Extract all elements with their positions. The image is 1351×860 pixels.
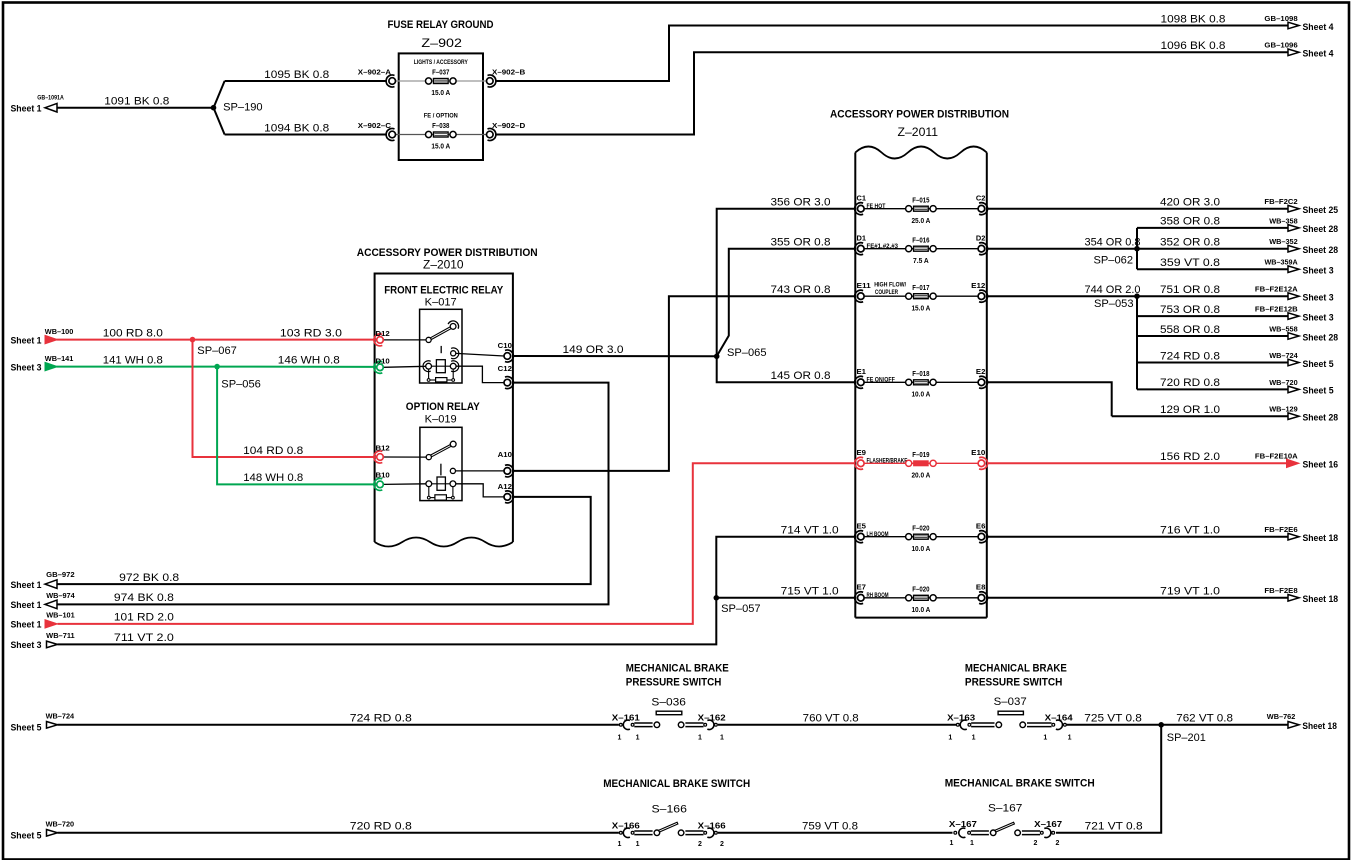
svg-text:LIGHTS / ACCESSORY: LIGHTS / ACCESSORY xyxy=(414,59,468,66)
pressure switch S-036 xyxy=(612,663,729,742)
relay K-019 xyxy=(384,401,505,501)
svg-text:K–019: K–019 xyxy=(425,414,457,426)
svg-text:E12: E12 xyxy=(971,281,985,290)
svg-text:MECHANICAL BRAKE SWITCH: MECHANICAL BRAKE SWITCH xyxy=(945,778,1095,790)
svg-text:GB–1096: GB–1096 xyxy=(1264,41,1297,50)
svg-text:F–018: F–018 xyxy=(912,371,929,378)
connector X-902-D xyxy=(487,121,526,141)
svg-text:E11: E11 xyxy=(857,281,871,290)
pin C12 xyxy=(498,364,514,389)
svg-text:A10: A10 xyxy=(498,450,512,459)
wire 720 RD 0.8 to sheet 5 xyxy=(1137,377,1334,396)
wire 714 VT 1.0 xyxy=(716,525,855,598)
svg-text:716 VT 1.0: 716 VT 1.0 xyxy=(1160,525,1220,537)
svg-text:Sheet 1: Sheet 1 xyxy=(11,580,42,590)
wire 716 VT 1.0 to sheet 18 xyxy=(987,525,1338,544)
svg-text:10.0 A: 10.0 A xyxy=(911,546,930,553)
pin C1 xyxy=(855,194,866,215)
svg-text:F–015: F–015 xyxy=(912,197,929,204)
svg-text:1098 BK 0.8: 1098 BK 0.8 xyxy=(1161,13,1226,25)
svg-text:149 OR 3.0: 149 OR 3.0 xyxy=(563,344,624,356)
svg-text:X–163: X–163 xyxy=(947,714,976,723)
wire 724 RD 0.8 to sheet 5 xyxy=(1137,350,1334,369)
svg-text:D10: D10 xyxy=(376,356,390,365)
pin E1 xyxy=(855,367,866,388)
svg-text:E10: E10 xyxy=(971,448,985,457)
svg-text:F–038: F–038 xyxy=(432,123,449,130)
svg-text:760 VT 0.8: 760 VT 0.8 xyxy=(803,713,859,725)
wire 558 OR 0.8 to sheet 28 xyxy=(1137,324,1338,343)
svg-text:15.0 A: 15.0 A xyxy=(431,144,450,151)
svg-text:744 OR 2.0: 744 OR 2.0 xyxy=(1085,284,1141,296)
svg-text:100 RD 8.0: 100 RD 8.0 xyxy=(103,327,163,339)
svg-text:COUPLER: COUPLER xyxy=(875,289,898,296)
svg-text:SP–190: SP–190 xyxy=(223,102,263,114)
svg-text:E2: E2 xyxy=(976,367,986,376)
svg-text:E8: E8 xyxy=(976,583,986,592)
svg-text:WB–720: WB–720 xyxy=(46,820,75,829)
svg-text:FB–F2C2: FB–F2C2 xyxy=(1264,197,1297,206)
svg-text:SP–065: SP–065 xyxy=(727,347,767,359)
fuse F-020 row E7-E8 xyxy=(861,587,982,615)
svg-text:F–016: F–016 xyxy=(912,237,929,244)
svg-text:SP–201: SP–201 xyxy=(1167,732,1206,744)
fuse F-020 row E5-E6 xyxy=(861,525,982,553)
svg-text:753 OR 0.8: 753 OR 0.8 xyxy=(1160,304,1220,316)
wire 129 OR 1.0 to sheet 28 xyxy=(987,382,1338,422)
wire 715 VT 1.0 xyxy=(716,586,855,598)
svg-text:SP–057: SP–057 xyxy=(721,603,761,615)
svg-text:RH BOOM: RH BOOM xyxy=(867,592,889,599)
svg-text:WB–358: WB–358 xyxy=(1269,216,1298,225)
pin D10 xyxy=(374,356,390,373)
svg-text:15.0 A: 15.0 A xyxy=(911,305,930,312)
svg-text:X–167: X–167 xyxy=(1034,820,1063,829)
svg-text:Sheet 3: Sheet 3 xyxy=(11,362,42,372)
svg-text:X–902–D: X–902–D xyxy=(492,121,526,130)
svg-text:WB–711: WB–711 xyxy=(46,631,74,640)
wire 719 VT 1.0 to sheet 18 xyxy=(987,586,1338,605)
svg-text:Sheet 18: Sheet 18 xyxy=(1303,594,1339,604)
wire 720 RD 0.8 from sheet 5 xyxy=(11,820,619,841)
svg-text:X–161: X–161 xyxy=(612,714,641,723)
svg-text:Sheet 28: Sheet 28 xyxy=(1303,224,1339,234)
brake switch S-166 xyxy=(603,778,750,848)
svg-text:FB–F2E12A: FB–F2E12A xyxy=(1255,285,1298,294)
svg-text:Sheet 1: Sheet 1 xyxy=(11,600,42,610)
svg-text:WB–141: WB–141 xyxy=(45,354,74,363)
wire 359 VT 0.8 to sheet 3 xyxy=(1137,257,1334,276)
power distribution box Z-2010 xyxy=(357,247,538,547)
svg-text:E9: E9 xyxy=(857,448,867,457)
svg-text:Sheet 18: Sheet 18 xyxy=(1303,533,1339,543)
svg-text:WB–100: WB–100 xyxy=(45,327,74,336)
svg-text:1: 1 xyxy=(636,734,640,741)
svg-text:FB–F2E12B: FB–F2E12B xyxy=(1255,305,1298,314)
wire 104 RD 0.8 xyxy=(193,340,377,457)
wire 725 VT 0.8 xyxy=(1067,713,1162,725)
svg-text:Sheet 5: Sheet 5 xyxy=(1303,386,1334,396)
svg-text:724 RD 0.8: 724 RD 0.8 xyxy=(1160,350,1220,362)
svg-text:FE HOT: FE HOT xyxy=(867,203,887,210)
svg-text:1: 1 xyxy=(970,840,974,847)
junction SP-062 xyxy=(1094,228,1140,269)
svg-text:352 OR 0.8: 352 OR 0.8 xyxy=(1160,237,1220,249)
svg-text:WB–129: WB–129 xyxy=(1269,405,1298,414)
svg-text:724 RD 0.8: 724 RD 0.8 xyxy=(350,713,412,725)
svg-text:1: 1 xyxy=(720,734,724,741)
svg-text:F–020: F–020 xyxy=(912,525,929,532)
svg-text:Z–2011: Z–2011 xyxy=(898,126,939,139)
pin E7 xyxy=(855,583,866,604)
pin A12 xyxy=(498,482,514,503)
wire 146 WH 0.8 xyxy=(217,354,377,367)
svg-text:X–164: X–164 xyxy=(1045,714,1074,723)
pin E6 xyxy=(976,522,988,543)
svg-text:354 OR 0.8: 354 OR 0.8 xyxy=(1085,237,1141,249)
pin E5 xyxy=(855,522,866,543)
svg-text:X–902–A: X–902–A xyxy=(358,67,392,76)
svg-text:20.0 A: 20.0 A xyxy=(911,473,930,480)
pin E11 xyxy=(855,281,871,302)
svg-text:Z–2010: Z–2010 xyxy=(423,258,464,271)
fuse F-037 xyxy=(414,59,468,97)
wire 355 OR 0.8 xyxy=(717,237,855,357)
connector X-902-B xyxy=(487,67,526,87)
junction SP-056 xyxy=(214,364,260,391)
wire 721 VT 0.8 xyxy=(1056,725,1161,833)
svg-text:1091 BK 0.8: 1091 BK 0.8 xyxy=(104,96,169,108)
svg-text:25.0 A: 25.0 A xyxy=(911,218,930,225)
svg-text:ACCESSORY POWER DISTRIBUTION: ACCESSORY POWER DISTRIBUTION xyxy=(830,108,1009,120)
pin E9 xyxy=(855,448,866,469)
svg-text:743 OR 0.8: 743 OR 0.8 xyxy=(771,284,831,296)
fuse F-015 row C1-C2 xyxy=(861,197,982,225)
pin A10 xyxy=(498,450,514,477)
svg-text:129 OR 1.0: 129 OR 1.0 xyxy=(1160,404,1220,416)
pin E12 xyxy=(971,281,987,302)
svg-text:10.0 A: 10.0 A xyxy=(911,607,930,614)
svg-text:972 BK 0.8: 972 BK 0.8 xyxy=(119,572,179,584)
pin B12 xyxy=(374,444,390,463)
pressure switch S-037 xyxy=(947,663,1073,742)
svg-text:Sheet 18: Sheet 18 xyxy=(1302,721,1337,731)
svg-text:F–017: F–017 xyxy=(912,285,929,292)
svg-text:103 RD 3.0: 103 RD 3.0 xyxy=(280,327,342,339)
svg-text:1: 1 xyxy=(1068,734,1072,741)
svg-text:146 WH 0.8: 146 WH 0.8 xyxy=(278,354,340,366)
svg-text:FRONT ELECTRIC RELAY: FRONT ELECTRIC RELAY xyxy=(384,284,503,296)
wire 145 OR 0.8 xyxy=(717,356,855,382)
fuse F-017 row E11-E12 xyxy=(861,282,982,313)
svg-text:FE#1,#2,#3: FE#1,#2,#3 xyxy=(867,243,899,250)
svg-text:2: 2 xyxy=(1034,840,1038,847)
svg-text:WB–101: WB–101 xyxy=(46,610,74,619)
svg-text:148 WH 0.8: 148 WH 0.8 xyxy=(243,472,303,484)
svg-text:101 RD 2.0: 101 RD 2.0 xyxy=(114,612,174,624)
junction SP-067 xyxy=(190,337,237,357)
svg-text:Sheet 28: Sheet 28 xyxy=(1303,245,1339,255)
svg-text:1: 1 xyxy=(948,734,952,741)
svg-text:FB–F2E6: FB–F2E6 xyxy=(1264,525,1297,534)
svg-text:558 OR 0.8: 558 OR 0.8 xyxy=(1160,324,1220,336)
pin E2 xyxy=(976,367,988,388)
svg-text:Sheet 3: Sheet 3 xyxy=(1303,312,1334,322)
svg-text:FLASHER/BRAKE: FLASHER/BRAKE xyxy=(867,457,908,464)
svg-text:104 RD 0.8: 104 RD 0.8 xyxy=(243,445,303,457)
pin E10 xyxy=(971,448,987,469)
svg-text:X–902–C: X–902–C xyxy=(358,121,392,130)
svg-text:SP–056: SP–056 xyxy=(221,379,260,391)
svg-text:Sheet 25: Sheet 25 xyxy=(1303,205,1339,215)
svg-text:E6: E6 xyxy=(976,522,986,531)
wire A12 to 972 xyxy=(58,497,591,584)
wire 1094 BK 0.8 xyxy=(225,122,387,134)
wire 352 OR 0.8 to sheet 28 xyxy=(1137,237,1338,256)
svg-text:MECHANICAL BRAKE: MECHANICAL BRAKE xyxy=(965,663,1067,675)
svg-text:K–017: K–017 xyxy=(425,297,457,309)
svg-text:S–037: S–037 xyxy=(994,696,1027,708)
svg-text:S–167: S–167 xyxy=(988,802,1022,814)
svg-text:356 OR 3.0: 356 OR 3.0 xyxy=(771,197,831,209)
svg-text:1094 BK 0.8: 1094 BK 0.8 xyxy=(264,122,329,134)
svg-text:1: 1 xyxy=(972,734,976,741)
svg-text:X–902–B: X–902–B xyxy=(492,67,525,76)
svg-text:WB–352: WB–352 xyxy=(1269,237,1298,246)
svg-text:FUSE RELAY GROUND: FUSE RELAY GROUND xyxy=(388,19,494,31)
svg-text:1: 1 xyxy=(618,841,622,848)
junction SP-053 xyxy=(1094,293,1140,389)
svg-text:LH BOOM: LH BOOM xyxy=(867,531,889,538)
svg-text:B12: B12 xyxy=(376,444,390,453)
svg-text:Sheet 5: Sheet 5 xyxy=(11,723,42,733)
svg-text:WB–720: WB–720 xyxy=(1269,378,1298,387)
svg-text:FE ON/OFF: FE ON/OFF xyxy=(867,376,895,383)
pin C10 xyxy=(498,341,514,362)
svg-text:Sheet 1: Sheet 1 xyxy=(11,103,42,113)
svg-text:B10: B10 xyxy=(376,470,390,479)
wire 148 WH 0.8 xyxy=(217,367,377,485)
svg-text:C1: C1 xyxy=(857,194,867,203)
svg-text:PRESSURE SWITCH: PRESSURE SWITCH xyxy=(965,677,1063,689)
svg-text:D1: D1 xyxy=(857,234,867,243)
svg-text:S–036: S–036 xyxy=(651,696,686,708)
power distribution box Z-2011 xyxy=(830,108,1009,617)
svg-text:1095 BK 0.8: 1095 BK 0.8 xyxy=(264,69,329,81)
wire 156 RD 2.0 to sheet 16 xyxy=(987,451,1338,470)
svg-text:GB–1091A: GB–1091A xyxy=(37,95,64,102)
svg-text:15.0 A: 15.0 A xyxy=(431,90,450,97)
svg-text:751 OR 0.8: 751 OR 0.8 xyxy=(1160,284,1220,296)
svg-text:420 OR 3.0: 420 OR 3.0 xyxy=(1160,197,1220,209)
wire 724 RD 0.8 from sheet 5 xyxy=(11,712,619,733)
svg-text:WB–974: WB–974 xyxy=(46,591,75,600)
svg-text:10.0 A: 10.0 A xyxy=(911,392,930,399)
svg-text:1: 1 xyxy=(950,840,954,847)
wire 100 RD 8.0 from sheet 1 xyxy=(11,327,193,345)
svg-text:2: 2 xyxy=(720,841,724,848)
fuse F-038 xyxy=(424,113,458,151)
svg-text:Sheet 28: Sheet 28 xyxy=(1303,413,1339,423)
svg-text:7.5 A: 7.5 A xyxy=(913,258,929,265)
svg-text:1: 1 xyxy=(1043,734,1047,741)
wire 149 OR 3.0 xyxy=(513,344,717,356)
svg-text:F–020: F–020 xyxy=(912,587,929,594)
svg-text:1: 1 xyxy=(698,734,702,741)
svg-text:X–167: X–167 xyxy=(949,820,978,829)
svg-text:141 WH 0.8: 141 WH 0.8 xyxy=(103,354,163,366)
svg-text:359 VT 0.8: 359 VT 0.8 xyxy=(1160,257,1220,269)
svg-text:FB–F2E8: FB–F2E8 xyxy=(1264,586,1297,595)
junction SP-201 xyxy=(1158,722,1205,744)
svg-text:X–162: X–162 xyxy=(698,714,727,723)
wire 101 RD 2.0 from sheet 1 xyxy=(11,463,856,629)
wire 759 VT 0.8 xyxy=(718,821,953,833)
wire 762 VT 0.8 to sheet 18 xyxy=(1161,712,1337,731)
brake switch S-167 xyxy=(945,778,1095,848)
wire 1095 BK 0.8 xyxy=(225,69,387,81)
svg-text:2: 2 xyxy=(1056,840,1060,847)
svg-text:Z–902: Z–902 xyxy=(421,37,462,50)
svg-text:D12: D12 xyxy=(376,329,390,338)
svg-text:WB–558: WB–558 xyxy=(1269,324,1298,333)
fuse F-019 row E9-E10 xyxy=(861,452,982,480)
svg-text:720 RD 0.8: 720 RD 0.8 xyxy=(1160,377,1220,389)
junction SP-065 xyxy=(714,347,767,359)
svg-text:715 VT 1.0: 715 VT 1.0 xyxy=(781,586,839,598)
svg-text:358 OR 0.8: 358 OR 0.8 xyxy=(1160,216,1220,228)
wire 1096 BK 0.8 to sheet 4 xyxy=(497,40,1334,134)
wire 972 BK 0.8 to sheet 1 xyxy=(11,570,180,590)
svg-text:S–166: S–166 xyxy=(652,804,687,816)
svg-text:1: 1 xyxy=(618,734,622,741)
connector X-902-A xyxy=(358,67,396,87)
wire C12 to 974 xyxy=(58,383,609,605)
svg-text:714 VT 1.0: 714 VT 1.0 xyxy=(781,525,839,537)
svg-text:SP–062: SP–062 xyxy=(1094,255,1134,267)
svg-text:355 OR 0.8: 355 OR 0.8 xyxy=(771,237,831,249)
junction SP-190 xyxy=(211,81,263,135)
svg-text:974 BK 0.8: 974 BK 0.8 xyxy=(114,592,174,604)
fuse F-018 row E1-E2 xyxy=(861,371,982,399)
svg-text:Sheet 1: Sheet 1 xyxy=(11,335,42,345)
wire 753 OR 0.8 to sheet 3 xyxy=(1137,304,1334,323)
wire 751 OR 0.8 to sheet 3 xyxy=(1137,284,1334,303)
svg-text:759 VT 0.8: 759 VT 0.8 xyxy=(802,821,858,833)
svg-text:C12: C12 xyxy=(498,364,512,373)
svg-text:E1: E1 xyxy=(857,367,867,376)
svg-text:1: 1 xyxy=(636,841,640,848)
svg-text:F–037: F–037 xyxy=(432,70,449,77)
svg-text:711 VT 2.0: 711 VT 2.0 xyxy=(114,632,174,644)
svg-text:GB–1098: GB–1098 xyxy=(1264,14,1297,23)
svg-text:Sheet 3: Sheet 3 xyxy=(1303,266,1334,276)
svg-text:E7: E7 xyxy=(857,583,867,592)
wire 420 OR 3.0 to sheet 25 xyxy=(987,197,1338,216)
svg-text:WB–762: WB–762 xyxy=(1267,712,1296,721)
fuse box Z-902 xyxy=(388,19,494,160)
svg-text:2: 2 xyxy=(698,841,702,848)
svg-text:Sheet 3: Sheet 3 xyxy=(1303,293,1334,303)
svg-text:C10: C10 xyxy=(498,341,512,350)
pin D12 xyxy=(374,329,390,346)
wire A10 to 743 OR 0.8 xyxy=(513,284,855,471)
wire 356 OR 3.0 xyxy=(717,197,855,357)
svg-text:SP–053: SP–053 xyxy=(1094,298,1134,310)
svg-text:721 VT 0.8: 721 VT 0.8 xyxy=(1085,821,1143,833)
svg-text:Sheet 4: Sheet 4 xyxy=(1303,22,1334,32)
svg-text:WB–359A: WB–359A xyxy=(1264,258,1298,267)
svg-text:F–019: F–019 xyxy=(912,452,929,459)
relay K-017 xyxy=(384,284,505,383)
svg-text:E5: E5 xyxy=(857,522,867,531)
wire 103 RD 3.0 xyxy=(193,327,377,339)
fuse F-016 row D1-D2 xyxy=(861,237,982,265)
svg-text:145 OR 0.8: 145 OR 0.8 xyxy=(771,370,831,382)
svg-text:C2: C2 xyxy=(976,194,986,203)
wire 1091 BK 0.8 to sheet 1 xyxy=(11,95,214,114)
svg-text:D2: D2 xyxy=(976,234,986,243)
svg-text:Sheet 1: Sheet 1 xyxy=(11,620,42,630)
svg-text:FE / OPTION: FE / OPTION xyxy=(424,113,458,120)
wire 141 WH 0.8 from sheet 3 xyxy=(11,354,218,373)
svg-text:A12: A12 xyxy=(498,482,512,491)
pin B10 xyxy=(374,470,390,490)
wire 744 OR 2.0 xyxy=(987,284,1141,296)
svg-text:Sheet 5: Sheet 5 xyxy=(1303,359,1334,369)
svg-text:156 RD 2.0: 156 RD 2.0 xyxy=(1160,451,1220,463)
svg-text:FB–F2E10A: FB–F2E10A xyxy=(1255,452,1298,461)
svg-text:HIGH FLOW/: HIGH FLOW/ xyxy=(874,282,906,289)
pin E8 xyxy=(976,583,988,604)
connector X-902-C xyxy=(358,121,396,141)
svg-text:GB–972: GB–972 xyxy=(46,570,74,579)
svg-text:Sheet 3: Sheet 3 xyxy=(11,640,42,650)
pin C2 xyxy=(976,194,988,215)
svg-text:725 VT 0.8: 725 VT 0.8 xyxy=(1084,713,1142,725)
wire 354 OR 0.8 xyxy=(987,237,1141,249)
svg-text:Sheet 4: Sheet 4 xyxy=(1303,49,1334,59)
svg-text:Sheet 16: Sheet 16 xyxy=(1303,460,1339,470)
svg-text:Sheet 28: Sheet 28 xyxy=(1303,332,1339,342)
pin D1 xyxy=(855,234,866,255)
svg-text:1096 BK 0.8: 1096 BK 0.8 xyxy=(1161,40,1226,52)
svg-text:X–166: X–166 xyxy=(612,822,641,831)
svg-text:720 RD 0.8: 720 RD 0.8 xyxy=(350,821,412,833)
svg-text:762 VT 0.8: 762 VT 0.8 xyxy=(1176,713,1233,725)
svg-text:ACCESSORY POWER DISTRIBUTION: ACCESSORY POWER DISTRIBUTION xyxy=(357,247,538,259)
svg-text:OPTION RELAY: OPTION RELAY xyxy=(406,401,480,413)
wire 974 BK 0.8 to sheet 1 xyxy=(11,591,174,610)
svg-text:PRESSURE SWITCH: PRESSURE SWITCH xyxy=(626,677,722,689)
svg-text:WB–724: WB–724 xyxy=(1269,351,1298,360)
pin D2 xyxy=(976,234,988,255)
junction SP-057 xyxy=(714,595,761,615)
svg-text:MECHANICAL BRAKE SWITCH: MECHANICAL BRAKE SWITCH xyxy=(603,778,750,790)
wire 358 OR 0.8 to sheet 28 xyxy=(1137,216,1338,235)
svg-text:719 VT 1.0: 719 VT 1.0 xyxy=(1160,586,1220,598)
wire 760 VT 0.8 xyxy=(718,713,957,725)
wire 1098 BK 0.8 to sheet 4 xyxy=(497,13,1334,81)
svg-text:Sheet 5: Sheet 5 xyxy=(11,831,42,841)
svg-text:WB–724: WB–724 xyxy=(46,712,75,721)
wire 711 VT 2.0 from sheet 3 xyxy=(11,598,717,650)
svg-text:X–166: X–166 xyxy=(698,822,727,831)
svg-text:SP–067: SP–067 xyxy=(197,345,237,357)
svg-text:MECHANICAL BRAKE: MECHANICAL BRAKE xyxy=(626,663,729,675)
